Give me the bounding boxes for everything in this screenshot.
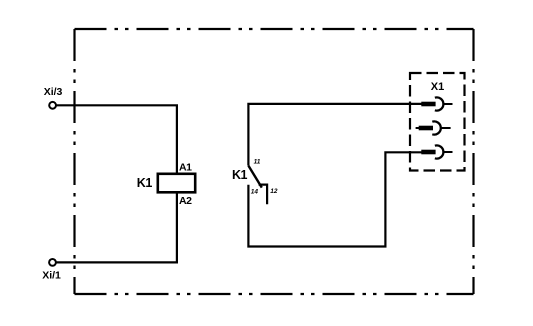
svg-text:A1: A1 — [179, 161, 192, 173]
connector X1 pin 1 socket arc — [435, 97, 444, 110]
svg-text:X1: X1 — [431, 81, 444, 93]
terminal Xi/3 — [49, 102, 56, 109]
svg-text:Xi/3: Xi/3 — [44, 86, 63, 98]
connector X1 pin 2 tail wire — [441, 127, 451, 129]
connector X1 pin 2 socket arc — [432, 121, 441, 134]
contact K1 moving arm — [248, 166, 261, 188]
enclosure boundary (dash-dot border) — [75, 29, 474, 294]
connector X1 pin 2 stub wire — [416, 127, 419, 129]
wire coil A2 to Xi/1 — [56, 192, 177, 262]
connector X1 (dashed box) — [410, 73, 465, 171]
connector X1 pin 2 male bar — [419, 126, 433, 131]
wire contact 14 to X1 pin3 — [248, 152, 421, 246]
wire X1 pin1 to contact 11 — [248, 104, 421, 166]
svg-text:14: 14 — [251, 188, 259, 195]
svg-text:K1: K1 — [137, 176, 153, 190]
contact K1 fixed contact 12 (hook) — [259, 185, 268, 205]
connector X1 pin 3 socket arc — [435, 145, 444, 158]
terminal Xi/1 — [49, 259, 56, 266]
relay coil K1 — [158, 174, 195, 193]
svg-text:11: 11 — [254, 158, 261, 165]
svg-text:Xi/1: Xi/1 — [42, 270, 61, 282]
connector X1 pin 1 male bar — [421, 102, 435, 107]
wire Xi/3 to coil A1 — [56, 105, 177, 174]
svg-text:K1: K1 — [232, 168, 248, 182]
connector X1 pin 3 tail wire — [443, 151, 452, 153]
svg-text:A2: A2 — [179, 195, 192, 207]
connector X1 pin 3 male bar — [421, 150, 435, 155]
connector X1 pin 1 tail wire — [443, 103, 452, 105]
svg-text:12: 12 — [270, 188, 278, 195]
